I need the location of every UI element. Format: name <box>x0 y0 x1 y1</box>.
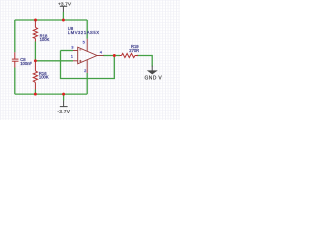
wire feedback from pin3 down and right up to output <box>61 51 115 79</box>
svg-text:100K: 100K <box>39 75 49 80</box>
svg-text:270R: 270R <box>129 48 139 53</box>
wire op-amp pin3 input stub <box>61 50 74 52</box>
svg-text:LMV321AS5X: LMV321AS5X <box>68 30 100 35</box>
capacitor C8 <box>12 52 19 67</box>
wire left rail from C8 bottom lead to bottom rail <box>14 68 16 95</box>
wire divider node to op-amp pin1 <box>35 60 73 62</box>
wire R19 right lead to GND V corner <box>137 56 153 67</box>
wire left rail down to C8 top lead <box>14 20 16 52</box>
svg-text:GND V: GND V <box>145 75 163 81</box>
wire +3.7V stem lower half <box>62 12 64 20</box>
power -3.7V symbol <box>60 101 68 107</box>
ground GND V arrow symbol <box>148 66 156 74</box>
node junction bottom rail R16 <box>34 93 37 96</box>
resistor R18 <box>33 20 37 42</box>
power +3.7V symbol <box>60 6 67 12</box>
node junction top rail R18 <box>34 19 37 22</box>
wire op-amp output to R19 left lead <box>103 55 120 57</box>
svg-text:100nF: 100nF <box>20 61 32 66</box>
node junction top rail +3.7V <box>62 19 65 22</box>
op-amp U8 <box>73 39 104 73</box>
wire bottom rail <box>15 93 87 95</box>
node divider mid junction <box>34 59 37 62</box>
wire R16 lower lead to bottom rail <box>34 90 36 95</box>
wire op-amp pin5 from top rail <box>86 20 88 39</box>
resistor R16 <box>33 61 37 90</box>
wire op-amp pin2 down to bottom rail <box>86 73 88 94</box>
wire -3.7V stem upper half <box>63 94 65 100</box>
svg-text:100K: 100K <box>40 37 50 42</box>
node output junction <box>113 54 116 57</box>
node junction bottom rail -3.7V <box>62 93 65 96</box>
op-amp plus sign <box>79 60 81 62</box>
svg-text:-3.7V: -3.7V <box>57 109 70 115</box>
wire R18 lower lead to divider node <box>34 42 36 61</box>
op-amp minus sign <box>79 49 81 51</box>
svg-text:+3.7V: +3.7V <box>58 1 72 7</box>
resistor R19 <box>120 53 139 57</box>
wire top rail from left corner to op-amp pin5 corner <box>15 19 87 21</box>
